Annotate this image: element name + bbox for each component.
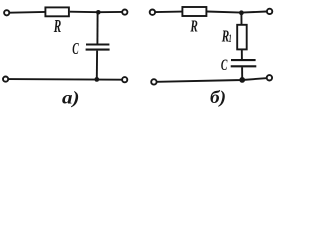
bottom wire (circuit b) bbox=[157, 78, 266, 82]
bottom wire (circuit a) bbox=[9, 78, 122, 81]
bottom junction dot (circuit b) bbox=[239, 77, 245, 83]
node B junction dot (top of R1, circuit b) bbox=[239, 10, 244, 15]
wire capacitor C to bottom node (circuit b) bbox=[241, 67, 243, 80]
wire resistor R1 to capacitor C (circuit b) bbox=[241, 49, 243, 59]
wire node A to output terminal bbox=[98, 11, 122, 13]
capacitor C top plate (circuit b) bbox=[231, 59, 256, 61]
svg-text:R: R bbox=[53, 16, 61, 36]
terminal bottom-right (circuit a) bbox=[122, 77, 127, 82]
capacitor C top plate (circuit a) bbox=[86, 43, 109, 45]
circuit b: input terminal top-left bbox=[150, 10, 155, 15]
svg-text:C: C bbox=[72, 39, 79, 58]
resistor R (circuit a) bbox=[45, 7, 69, 16]
resistor R1 (vertical, circuit b) bbox=[237, 25, 247, 50]
terminal bottom-left (circuit b) bbox=[151, 79, 156, 84]
svg-text:а): а) bbox=[62, 87, 80, 108]
resistor R (circuit b) bbox=[182, 7, 206, 16]
wire capacitor C to bottom node bbox=[96, 51, 98, 80]
wire top-left to resistor R bbox=[10, 11, 45, 14]
node A junction dot (top of C, circuit a) bbox=[96, 10, 101, 15]
svg-text:C: C bbox=[221, 57, 228, 74]
svg-text:1: 1 bbox=[229, 31, 232, 45]
svg-text:б): б) bbox=[210, 87, 226, 108]
wire node A down to capacitor C bbox=[96, 12, 98, 44]
circuit a: input terminal top-left bbox=[4, 10, 9, 15]
wire resistor R to node B bbox=[207, 12, 242, 13]
capacitor C bottom plate (circuit b) bbox=[231, 65, 257, 67]
output terminal top-right (circuit a) bbox=[122, 10, 127, 15]
svg-text:R: R bbox=[190, 17, 198, 36]
terminal bottom-right (circuit b) bbox=[267, 75, 272, 80]
capacitor C bottom plate (circuit a) bbox=[86, 49, 110, 51]
wire resistor R to node A bbox=[70, 11, 99, 14]
wire node B down to resistor R1 bbox=[240, 12, 242, 24]
bottom junction dot (circuit a) bbox=[94, 77, 99, 82]
wire node B to output terminal (circuit b) bbox=[241, 12, 266, 13]
output terminal top-right (circuit b) bbox=[267, 9, 272, 14]
wire top-left to resistor R (circuit b) bbox=[155, 11, 182, 14]
terminal bottom-left (circuit a) bbox=[3, 77, 8, 82]
